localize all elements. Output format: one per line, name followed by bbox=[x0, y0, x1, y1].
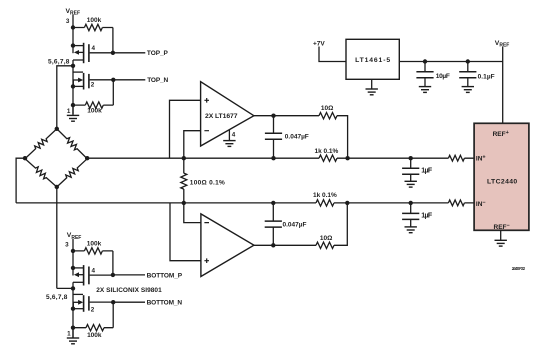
wire - input of top op-amp bbox=[184, 131, 201, 159]
svg-text:100k: 100k bbox=[87, 240, 102, 247]
svg-text:10Ω: 10Ω bbox=[320, 235, 332, 242]
node junction dot (inverting net bottom) bbox=[182, 201, 186, 205]
svg-text:TOP_P: TOP_P bbox=[147, 50, 169, 57]
svg-text:4: 4 bbox=[232, 131, 236, 138]
wire IN- horizontal line bbox=[16, 202, 474, 204]
wire top op-amp output bbox=[254, 116, 348, 159]
wire VREF rail upper (top block) bbox=[72, 15, 74, 54]
op-amp U2 LT1677 (bottom) bbox=[201, 214, 254, 277]
resistor R3 100 ohm 0.1% bbox=[181, 158, 187, 203]
transistor Q2 N-channel (pin 2) bbox=[71, 72, 114, 89]
bridge resistor RB4 bottom-right arm bbox=[54, 156, 90, 190]
svg-text:3: 3 bbox=[65, 241, 69, 248]
svg-text:1µF: 1µF bbox=[421, 168, 433, 175]
svg-text:100k: 100k bbox=[87, 17, 102, 24]
wire TOP_N node to R2 bbox=[112, 80, 114, 105]
bridge node top dot bbox=[55, 127, 59, 131]
node 5,6,7,8 junction dot bbox=[71, 64, 75, 68]
capacitor C5 10uF bbox=[416, 62, 433, 93]
svg-text:10Ω: 10Ω bbox=[321, 105, 333, 112]
node BOTTOM_P junction dot bbox=[111, 273, 115, 277]
svg-text:TOP_N: TOP_N bbox=[147, 77, 168, 84]
svg-text:VREF: VREF bbox=[495, 40, 510, 49]
resistor R1 100k (top pull-up) bbox=[73, 24, 113, 30]
svg-text:2X SILICONIX SI9801: 2X SILICONIX SI9801 bbox=[96, 287, 162, 294]
svg-text:VREF: VREF bbox=[67, 232, 82, 241]
bridge node bottom dot bbox=[55, 185, 59, 189]
svg-text:100Ω 0.1%: 100Ω 0.1% bbox=[190, 180, 225, 187]
svg-text:1k 0.1%: 1k 0.1% bbox=[313, 192, 337, 199]
wire TOP_N lead bbox=[113, 79, 145, 81]
svg-text:1: 1 bbox=[67, 331, 71, 338]
node junction dot feedback (bottom) bbox=[345, 201, 349, 205]
node junction dot VREF/R1 bbox=[71, 25, 75, 29]
wire VREF rail lower (top block) bbox=[72, 60, 74, 114]
svg-text:1µF: 1µF bbox=[421, 213, 433, 220]
ground op-amp pin 4 bbox=[223, 130, 235, 147]
capacitor C3 0.047uF (bottom) bbox=[265, 203, 282, 245]
svg-text:100k: 100k bbox=[87, 332, 102, 339]
svg-text:5,6,7,8: 5,6,7,8 bbox=[48, 58, 70, 65]
ground (top block) bbox=[67, 105, 79, 121]
wire BOTTOM_N lead bbox=[113, 301, 145, 303]
svg-text:100k: 100k bbox=[87, 107, 102, 114]
node BOTTOM_N junction dot bbox=[111, 300, 115, 304]
svg-text:BOTTOM_P: BOTTOM_P bbox=[147, 272, 183, 279]
node junction dot 0.1uF bbox=[466, 59, 470, 63]
node junction dot C1 bottom bbox=[271, 156, 275, 160]
resistor R10 100k (bottom block pull-up) bbox=[73, 248, 113, 254]
node TOP_N junction dot bbox=[111, 78, 115, 82]
node junction dot 10uF bbox=[423, 59, 427, 63]
node 5,6,7,8 junction dot (bottom block) bbox=[71, 286, 75, 290]
wire bridge bottom node down to bottom block bbox=[56, 187, 58, 288]
wire VREF rail upper (bottom block) bbox=[72, 239, 74, 276]
svg-text:5,6,7,8: 5,6,7,8 bbox=[46, 294, 68, 301]
resistor R11 100k (bottom of bottom block) bbox=[73, 325, 113, 331]
node junction dot IN- filter bbox=[409, 201, 413, 205]
node junction dot R11 left bbox=[71, 326, 75, 330]
bridge resistor RB3 bottom-left arm bbox=[23, 156, 59, 189]
wire TOP_P lead bbox=[113, 52, 145, 54]
node junction dot (inverting net top) bbox=[182, 156, 186, 160]
transistor Q4 N-channel (pin 2, bottom block) bbox=[71, 294, 114, 311]
resistor R6 series IN+ bbox=[448, 155, 464, 161]
wire 5,6,7,8 to bridge top bbox=[57, 66, 73, 129]
svg-text:2: 2 bbox=[91, 306, 95, 313]
bridge node right dot bbox=[85, 156, 89, 160]
node output junction dot (top) bbox=[271, 114, 275, 118]
svg-text:3: 3 bbox=[66, 18, 70, 25]
wire regulator output / VREF line bbox=[399, 47, 502, 124]
wire 5,6,7,8 to bridge bottom bbox=[57, 287, 73, 289]
resistor R5 1k 0.1% (top) bbox=[319, 155, 337, 161]
node output junction dot (bottom) bbox=[271, 243, 275, 247]
svg-text:1: 1 bbox=[67, 108, 71, 115]
node TOP_P junction dot bbox=[111, 51, 115, 55]
svg-text:BOTTOM_N: BOTTOM_N bbox=[147, 300, 183, 307]
capacitor C1 0.047uF (top) bbox=[265, 116, 282, 159]
svg-text:4: 4 bbox=[92, 45, 96, 52]
node junction dot IN+ filter bbox=[409, 156, 413, 160]
resistor R9 series IN- bbox=[448, 200, 464, 206]
svg-text:0.1µF: 0.1µF bbox=[478, 74, 495, 81]
transistor Q3 P-channel (pin 4, bottom block) bbox=[71, 265, 113, 285]
bridge node left dot bbox=[23, 156, 27, 160]
wire IN+ horizontal line (bridge right to LTC2440) bbox=[87, 157, 474, 159]
svg-text:+7V: +7V bbox=[313, 40, 325, 47]
wire VREF rail lower (bottom block) bbox=[72, 282, 74, 337]
svg-text:10µF: 10µF bbox=[436, 73, 450, 80]
svg-text:2440 F22: 2440 F22 bbox=[512, 266, 526, 271]
svg-text:LT1461-5: LT1461-5 bbox=[355, 57, 390, 64]
node junction dot C3 top bbox=[271, 201, 275, 205]
node junction dot R2 left bbox=[71, 103, 75, 107]
resistor R4 10 ohm (top) bbox=[319, 113, 337, 119]
resistor R7 10 ohm (bottom) bbox=[316, 242, 334, 248]
node junction dot feedback (top) bbox=[345, 156, 349, 160]
wire bottom op-amp output bbox=[254, 203, 347, 245]
wire bridge left node to IN- line bbox=[16, 158, 25, 203]
svg-text:4: 4 bbox=[92, 268, 96, 275]
ground regulator bbox=[366, 79, 378, 95]
wire + input of bottom op-amp bbox=[170, 203, 201, 261]
wire - input of bottom op-amp bbox=[184, 203, 201, 223]
wire BOTTOM_P lead bbox=[113, 274, 145, 276]
svg-text:1k 0.1%: 1k 0.1% bbox=[314, 148, 338, 155]
wire + input of top op-amp bbox=[170, 100, 201, 158]
capacitor C6 0.1uF bbox=[459, 62, 476, 93]
bridge resistor RB2 top-right arm bbox=[54, 126, 89, 161]
resistor R8 1k 0.1% (bottom) bbox=[316, 200, 334, 206]
ground (bottom block) bbox=[67, 328, 79, 344]
resistor R2 100k (bottom of top block) bbox=[73, 102, 113, 108]
transistor Q1 P-channel (pin 4) bbox=[71, 43, 113, 63]
svg-text:2: 2 bbox=[91, 82, 95, 89]
capacitor C4 1uF (IN-) bbox=[402, 203, 419, 233]
wire R10 to BOTTOM_P node bbox=[112, 251, 114, 275]
svg-text:0.047µF: 0.047µF bbox=[283, 222, 307, 229]
wire BOTTOM_N node to R11 bbox=[112, 302, 114, 328]
ADC U4 LTC2440 bbox=[474, 123, 529, 230]
capacitor C2 1uF (IN+) bbox=[402, 158, 419, 187]
svg-text:2X LT1677: 2X LT1677 bbox=[205, 113, 238, 120]
bridge resistor RB1 top-left arm bbox=[23, 127, 59, 161]
regulator U3 LT1461-5 bbox=[346, 39, 399, 79]
svg-text:0.047µF: 0.047µF bbox=[285, 134, 309, 141]
ground REF- bbox=[495, 230, 507, 246]
op-amp U1 LT1677 (top) bbox=[201, 82, 254, 146]
wire R1 to TOP_P node bbox=[112, 28, 114, 53]
svg-text:LTC2440: LTC2440 bbox=[487, 178, 517, 185]
node junction dot VREF/R10 bbox=[71, 249, 75, 253]
wire +7V to regulator bbox=[319, 47, 346, 62]
